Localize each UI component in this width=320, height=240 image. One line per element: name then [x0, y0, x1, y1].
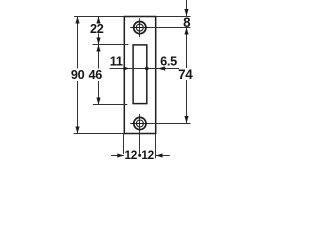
arrowheads	[75, 9, 188, 158]
8 / 74 dim line	[186, 0, 188, 16]
11 / 6.5 dim line	[110, 68, 179, 70]
bottom ext right	[155, 134, 157, 158]
plate bottom, left	[74, 133, 125, 135]
dimension lines	[78, 0, 187, 156]
svg-text:8: 8	[183, 15, 191, 30]
svg-text:12: 12	[141, 148, 154, 160]
svg-text:90: 90	[71, 68, 85, 82]
svg-text:46: 46	[88, 68, 102, 82]
bottom ext left	[123, 134, 125, 154]
svg-text:74: 74	[178, 67, 193, 82]
svg-text:12: 12	[125, 148, 138, 160]
hole centre top, right	[149, 27, 191, 29]
90 bottom arrow	[75, 127, 79, 134]
hole centre bottom, right	[149, 123, 191, 125]
6.5 arrow	[158, 66, 166, 70]
11/6.5 junction dot	[145, 67, 149, 71]
12-12 dim line left stub	[111, 155, 124, 157]
8 bottom arrow / 74 top arrow	[184, 28, 188, 35]
svg-text:11: 11	[110, 55, 123, 69]
12 left arrow	[117, 153, 124, 157]
46 bottom arrow	[96, 98, 100, 105]
46 top arrow	[96, 45, 100, 52]
bottom ext middle	[139, 134, 141, 154]
90 dim line	[77, 17, 79, 69]
screw hole top	[130, 18, 149, 37]
74 bottom arrow	[184, 116, 188, 123]
slot top, left	[93, 44, 129, 46]
slot bottom, left	[93, 104, 127, 106]
plate top, left	[74, 16, 124, 18]
22 top arrow	[96, 17, 100, 24]
latch slot	[133, 45, 147, 104]
extension lines	[74, 17, 191, 159]
12-12 junction dot	[138, 154, 141, 157]
12 right arrow	[156, 153, 163, 157]
12-12 dim line right stub	[156, 155, 170, 157]
22 bottom arrow	[96, 38, 100, 45]
svg-text:22: 22	[90, 22, 104, 36]
svg-text:6.5: 6.5	[160, 55, 177, 69]
8 top arrow	[184, 9, 188, 16]
22 dim line	[98, 17, 100, 23]
90 top arrow	[75, 17, 79, 24]
46 dim line	[98, 45, 100, 69]
screw hole bottom	[130, 114, 149, 133]
plate top, right	[156, 16, 191, 18]
plate outline	[124, 17, 155, 134]
11 arrow	[123, 66, 129, 70]
